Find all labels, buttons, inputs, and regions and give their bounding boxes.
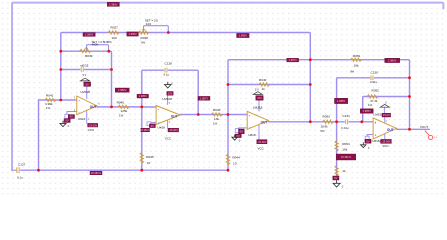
output port pin VOUT: [425, 131, 429, 136]
svg-text:OUT: OUT: [171, 114, 178, 118]
resistor R045: [140, 152, 143, 163]
svg-text:C128: C128: [165, 62, 173, 66]
node label R051 right: [385, 58, 400, 62]
svg-text:0.01u: 0.01u: [370, 80, 378, 84]
junction stage3 input node: [227, 113, 230, 116]
resistor R044: [226, 154, 229, 165]
svg-text:VCC: VCC: [258, 147, 265, 151]
svg-text:R039: R039: [85, 54, 93, 58]
wire stage3 output through R053 C131 to stage5 input: [268, 121, 373, 123]
wire stage3 V- stub: [258, 125, 260, 139]
wire stage5 V- stub: [384, 134, 386, 140]
svg-text:R054: R054: [342, 142, 350, 146]
wire stage1 V+ stub: [86, 86, 88, 98]
wire stub to C127: [12, 169, 16, 171]
svg-text:LM318: LM318: [162, 97, 172, 101]
junction R040c left: [227, 83, 230, 86]
bias label stage1 V+ pin: [84, 82, 91, 86]
floating pin square stage2: [147, 122, 151, 126]
resistor R053: [323, 120, 334, 123]
svg-text:1%: 1%: [119, 114, 124, 118]
svg-text:15k: 15k: [342, 148, 347, 152]
bias label stage1 inv input node: [64, 119, 70, 123]
junction rail A / stage1 input: [59, 99, 62, 102]
junction R040c right: [309, 83, 312, 86]
wire C126 row y=69.5: [61, 69, 112, 71]
wire stage2 feedback loop with C128: [142, 70, 198, 114]
bias label stage1 inv input pin: [68, 115, 74, 119]
wire R040c feedback row: [228, 84, 310, 86]
bias label above bottom ground: [333, 176, 339, 180]
wire R039 wiper loop: [87, 45, 109, 52]
potentiometer R038: [138, 31, 149, 34]
svg-text:R040: R040: [213, 108, 221, 112]
wire stage1 V- stub: [86, 111, 88, 124]
op-amp U#16 LM318 stage1: [77, 96, 97, 115]
svg-text:R038: R038: [141, 36, 149, 40]
bias label stage2 inv input pin: [149, 124, 155, 128]
op-amp U#16A LM318 stage5: [373, 118, 397, 139]
wire input branch down to bottom rail: [38, 100, 40, 170]
power arrow stage1 V+: [80, 78, 89, 81]
svg-text:400K: 400K: [92, 42, 99, 46]
node label node A: [335, 98, 348, 103]
capacitor C126: [80, 67, 84, 72]
wire node A rail up and across C130 row: [337, 78, 410, 122]
svg-text:0%: 0%: [350, 70, 355, 74]
svg-text:1%: 1%: [46, 106, 51, 110]
svg-text:OUT: OUT: [387, 128, 394, 132]
node label 1.985V mid top chain: [237, 33, 250, 37]
resistor R040 stage3 feedback: [259, 83, 270, 86]
resistor R054: [335, 141, 338, 152]
svg-text:0%: 0%: [141, 41, 146, 45]
floating pin square stage3: [235, 129, 239, 133]
ground stage3 inv input: [234, 135, 236, 137]
capacitor C130: [370, 76, 374, 81]
junction stage1 output / rail B: [110, 106, 113, 109]
wire stage2 V+ stub: [167, 95, 169, 104]
svg-text:VCC: VCC: [382, 144, 389, 148]
wire stage3 inv input stub: [239, 128, 248, 129]
svg-text:10: 10: [147, 161, 151, 165]
wire stage5 V+ stub: [384, 117, 386, 123]
svg-text:0.1u: 0.1u: [17, 175, 23, 179]
node label 1.980V on rail B: [115, 88, 129, 92]
wire top chain rail A up, across y=32.5, down rail x=310: [61, 33, 310, 122]
wire stage1 inv input to ground: [67, 112, 77, 115]
resistor R040 stage3 input: [211, 113, 222, 116]
wire stage5 ground-0 stub to V+ label: [383, 107, 385, 113]
node label on stage2 left rail: [137, 94, 149, 98]
power arrow stage3 V+: [253, 92, 262, 95]
svg-text:R040: R040: [117, 100, 125, 104]
node label 1.980V left of R027: [83, 33, 95, 37]
ground arrow stage5 V+: [380, 104, 389, 107]
svg-text:1k: 1k: [342, 169, 346, 173]
op-amp U#18 LM318 stage3: [247, 111, 268, 129]
bias label node divider: [336, 154, 356, 160]
junction bottom rail / R044: [227, 169, 230, 172]
potentiometer R039: [80, 49, 91, 52]
svg-text:U#18: U#18: [248, 133, 256, 137]
svg-text:C131: C131: [342, 114, 350, 118]
junction rail R / output: [408, 128, 411, 131]
svg-text:C127: C127: [18, 163, 26, 167]
wire stage2 output through R040b to stage3: [180, 114, 247, 116]
wire stage2 divider rail down through R045: [141, 107, 143, 170]
wire R038 wiper loop: [144, 26, 169, 33]
resistor R040 stage1 output: [118, 105, 129, 108]
wire stage2 inv input stub: [151, 122, 156, 124]
bias label stage5 inv input node: [365, 139, 371, 143]
junction stage3 output / rail x310: [309, 120, 312, 123]
svg-text:R027: R027: [111, 25, 119, 29]
node label 1.985V right of R027: [127, 32, 139, 36]
svg-text:OUT: OUT: [261, 121, 268, 125]
wire pot R039 row y=51 and rail B down: [61, 51, 112, 107]
svg-text:125k: 125k: [121, 109, 128, 113]
svg-text:10k: 10k: [354, 64, 359, 68]
bias label stage2 V-: [168, 128, 179, 132]
junction rail B / C126 row: [110, 68, 113, 71]
svg-text:VCC: VCC: [165, 136, 172, 140]
bias label stage5 inv input: [360, 109, 373, 113]
junction stage1 R040a / stage2 rail: [140, 106, 143, 109]
svg-text:R044: R044: [232, 155, 240, 159]
svg-text:OUT: OUT: [90, 105, 97, 109]
svg-text:1%: 1%: [213, 121, 218, 125]
resistor R055: [335, 165, 338, 176]
wire stage3 V+ stub: [258, 101, 260, 111]
svg-text:VOUT: VOUT: [420, 125, 429, 129]
junction stage2 output / feedback rail: [197, 113, 200, 116]
svg-text:C130: C130: [371, 70, 379, 74]
bias label stage3 inv input pin: [239, 129, 245, 134]
bias label stage3 inv input node: [235, 134, 241, 138]
svg-text:0%: 0%: [108, 40, 113, 44]
svg-text:18.9k: 18.9k: [321, 124, 329, 128]
svg-text:10: 10: [233, 161, 237, 165]
svg-text:R040: R040: [259, 78, 267, 82]
junction R038 wiper: [167, 31, 170, 34]
node label on outer top wire: [107, 2, 119, 6]
wire outer loop from C127 up left side along top to right: [12, 3, 443, 171]
bias label stage5 V+: [382, 113, 391, 117]
wire stage5 inv input stub: [367, 135, 374, 137]
bias label stage2 rail: [141, 128, 150, 132]
wire node A rail down through R054 R055 to ground: [336, 122, 338, 180]
svg-text:0%: 0%: [321, 129, 326, 133]
svg-text:R045: R045: [146, 155, 154, 159]
svg-text:U#18: U#18: [158, 126, 166, 130]
wire stage5 output to VOUT: [397, 128, 430, 130]
svg-text:LM318: LM318: [374, 112, 384, 116]
junction bottom rail / input branch: [37, 169, 40, 172]
svg-text:VCC: VCC: [88, 128, 95, 132]
svg-text:1k: 1k: [262, 87, 266, 91]
bias label stage5 V-: [381, 139, 392, 143]
bias label bottom rail: [90, 171, 102, 175]
bias label stage1 V-: [88, 123, 98, 127]
wire stage3 feedback rail up, across y=59.7 with R051, down rail R: [228, 60, 410, 130]
junction node A / output row: [335, 120, 338, 123]
svg-text:LM318: LM318: [253, 105, 263, 109]
wire stage3 divider rail down through R044: [227, 115, 229, 171]
floating pin square stage5: [365, 136, 369, 140]
junction rail A / R039 row: [59, 50, 62, 53]
svg-text:5 V: 5 V: [255, 89, 259, 92]
svg-text:0.01u: 0.01u: [341, 126, 349, 130]
svg-text:5 V: 5 V: [83, 74, 87, 77]
wire R052 row from inverting node up and across: [363, 97, 410, 122]
svg-text:1%: 1%: [368, 103, 373, 107]
svg-text:R051: R051: [353, 54, 361, 58]
svg-text:R053: R053: [323, 114, 331, 118]
ground above stage2: [167, 82, 169, 85]
junction rail A / C126 row: [59, 68, 62, 71]
resistor R041: [45, 98, 56, 101]
wire stage2 +input: [142, 106, 156, 108]
resistor R052: [367, 95, 378, 98]
junction R039 wiper: [107, 50, 110, 53]
ground stage1 inv input: [62, 121, 64, 124]
capacitor C131: [345, 120, 349, 125]
svg-text:100: 100: [112, 36, 117, 40]
capacitor C128: [164, 68, 168, 73]
bias label stage2 V+: [167, 92, 173, 96]
junction top chain / y59 wire: [309, 58, 312, 61]
ground bottom right: [336, 180, 338, 183]
floating pin square stage1: [65, 114, 69, 118]
op-amp U#18 LM318 stage2: [156, 106, 180, 125]
svg-text:0.1u: 0.1u: [164, 72, 170, 76]
junction bottom rail / R045: [140, 169, 143, 172]
svg-text:4.99k: 4.99k: [45, 102, 53, 106]
capacitor C127: [17, 167, 19, 173]
node label stage2 output: [198, 96, 210, 100]
junction R052 / rail R: [408, 95, 411, 98]
wire stage2 V- stub: [167, 120, 169, 128]
node label y59 wire: [287, 58, 299, 62]
svg-text:U#16: U#16: [78, 117, 86, 121]
wire stage1 output to R040a to stage2: [97, 106, 142, 108]
resistor R051: [351, 58, 362, 61]
junction C130 / rail R: [408, 76, 411, 79]
svg-text:R052: R052: [372, 88, 380, 92]
svg-text:100: 100: [146, 22, 151, 26]
bias label stage3 V+: [256, 96, 263, 101]
wire stage1 non-inv input from R041: [39, 99, 77, 101]
svg-text:13k: 13k: [214, 117, 219, 121]
resistor R027: [108, 31, 119, 34]
wire bottom rail: [21, 169, 228, 171]
ground stage5 inv input: [362, 142, 364, 144]
svg-text:37.4k: 37.4k: [370, 99, 378, 103]
svg-text:mE/25: mE/25: [80, 64, 89, 68]
bias label stage3 V-: [257, 140, 267, 144]
junction stage5 input bias: [360, 120, 363, 123]
svg-text:R041: R041: [46, 93, 54, 97]
